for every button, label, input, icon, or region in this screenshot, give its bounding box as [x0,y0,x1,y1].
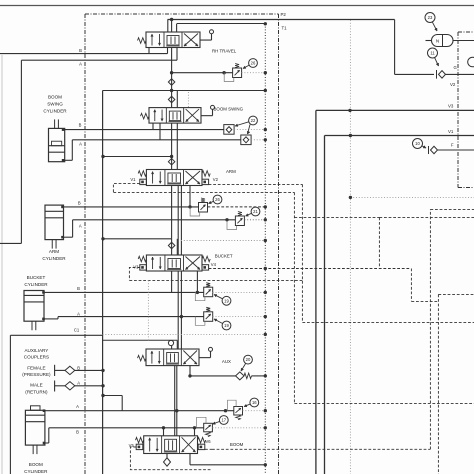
svg-text:A: A [77,381,80,386]
svg-text:SWING: SWING [47,102,63,107]
svg-text:CYLINDER: CYLINDER [42,256,66,261]
svg-text:G: G [454,65,457,70]
svg-text:A: A [79,223,82,228]
svg-text:B: B [79,48,82,53]
svg-text:V3: V3 [448,104,454,109]
svg-text:COUPLERS: COUPLERS [24,355,49,360]
svg-text:19: 19 [224,323,229,328]
svg-text:V1: V1 [130,177,136,182]
svg-text:17: 17 [221,418,226,423]
svg-text:N: N [436,39,439,44]
svg-text:19: 19 [224,298,229,303]
svg-text:BUCKET: BUCKET [215,254,233,259]
svg-text:FEMALE: FEMALE [27,365,45,370]
svg-text:A: A [77,312,80,317]
svg-text:AUX: AUX [222,359,231,364]
svg-text:V3: V3 [133,264,139,269]
svg-text:(RETURN): (RETURN) [25,389,48,394]
svg-text:16: 16 [252,400,257,405]
svg-text:BOOM: BOOM [48,95,62,100]
svg-text:A: A [76,404,79,409]
svg-text:BOOM SWING: BOOM SWING [214,107,244,112]
svg-text:V2: V2 [213,177,219,182]
svg-text:T1: T1 [282,26,288,31]
svg-text:V2: V2 [450,82,456,87]
svg-text:BUCKET: BUCKET [27,275,46,280]
svg-text:P2: P2 [281,12,287,17]
svg-text:CYLINDER: CYLINDER [24,282,48,287]
svg-text:C1: C1 [74,327,80,332]
svg-text:V1: V1 [448,129,454,134]
svg-text:V6: V6 [206,439,212,444]
svg-text:CYLINDER: CYLINDER [24,469,48,474]
svg-text:23: 23 [428,15,433,20]
svg-text:11: 11 [430,51,435,56]
svg-text:21: 21 [253,209,258,214]
svg-text:10: 10 [415,141,420,146]
svg-text:AUXILIARY: AUXILIARY [24,348,48,353]
svg-text:26: 26 [251,61,256,66]
svg-text:B: B [77,366,80,371]
svg-text:B: B [76,430,79,435]
svg-text:A: A [79,62,82,67]
svg-text:B: B [78,201,81,206]
svg-text:26: 26 [215,197,220,202]
svg-text:CYLINDER: CYLINDER [43,109,67,114]
svg-text:V4: V4 [211,262,217,267]
svg-text:MALE: MALE [30,383,43,388]
svg-text:ARM: ARM [49,249,59,254]
svg-text:RH TRAVEL: RH TRAVEL [212,49,237,54]
svg-text:B: B [79,122,82,127]
svg-text:B: B [77,286,80,291]
svg-text:A: A [79,141,82,146]
svg-text:F: F [451,143,454,148]
svg-text:BOOM: BOOM [230,442,244,447]
svg-text:22: 22 [251,118,256,123]
svg-text:BOOM: BOOM [29,462,43,467]
svg-text:(PRESSURE): (PRESSURE) [22,372,51,377]
svg-text:20: 20 [246,357,251,362]
svg-text:ARM: ARM [226,169,236,174]
